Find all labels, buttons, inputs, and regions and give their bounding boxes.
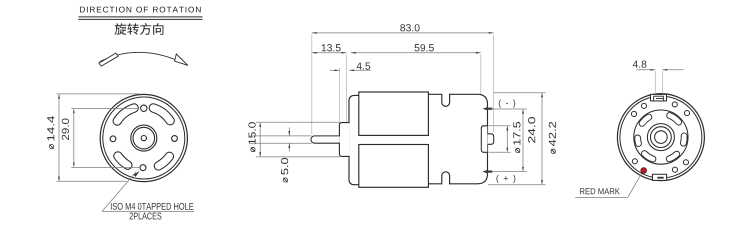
label ISO M4 0TAPPED HOLE (110, 203, 113, 210)
front vent slot upper-right (153, 108, 170, 121)
rear rivet hole 2 (672, 167, 677, 172)
rear rivet hole 6 (672, 102, 677, 107)
rear bearing hole (655, 131, 668, 144)
rear rivet hole 5 (641, 103, 646, 108)
rear rivet hole 7 (684, 111, 689, 116)
rear vent slot upper-right (670, 116, 679, 123)
M4 tapped hole bottom (140, 165, 146, 171)
dim 29.0 extension top (71, 108, 138, 110)
rear bottom tab (653, 174, 667, 180)
rear inner ring (620, 96, 702, 178)
dim d14.4 line (58, 95, 60, 180)
dim d17.5 extensions (489, 125, 511, 127)
dim 29.0 text (62, 119, 69, 140)
rear cap outline with notches (428, 94, 487, 184)
RED MARK label (580, 188, 585, 194)
rear boss circles (647, 124, 674, 151)
leader underline (102, 210, 194, 212)
dim 83.0 (312, 32, 494, 34)
bushing (339, 123, 349, 157)
dim 29.0 extension bottom (71, 166, 139, 168)
dim d42.2 extensions (494, 92, 546, 94)
ext line bump tip (493, 35, 495, 133)
rotation arrow head (175, 54, 188, 65)
front inner ring (103, 97, 185, 179)
rear rivet hole 4 (631, 111, 636, 116)
rear bearing bump (488, 134, 494, 145)
chinese title 旋转方向 (115, 23, 127, 35)
RED MARK underline (575, 196, 628, 198)
RED MARK leader (628, 173, 642, 197)
rear boss on cap (481, 126, 487, 153)
label (+) (496, 175, 498, 183)
terminal (-) top (482, 107, 487, 110)
side hole right (172, 136, 178, 142)
dim 59.5 (351, 52, 481, 54)
rear vent slot upper-left (642, 117, 649, 123)
dim 4.5 (330, 69, 339, 71)
label 2PLACES (130, 213, 133, 220)
rear vent slot left (634, 138, 642, 144)
title text (80, 7, 85, 13)
dim d5.0 extensions (251, 135, 312, 137)
M4 tapped hole top (141, 105, 147, 111)
title double rule (78, 16, 202, 18)
dim d42.2 line (541, 94, 543, 184)
rear top tab (651, 94, 667, 101)
ext line shaft tip (311, 35, 313, 135)
shaft (311, 136, 340, 143)
dim 29.0 line (73, 110, 75, 167)
front outer circle (100, 94, 187, 181)
dim 24.0 extensions (493, 108, 528, 110)
dim d14.4 text (47, 116, 54, 149)
front vent slot lower-right (158, 156, 169, 166)
rear cap face circle (634, 110, 688, 164)
rear rivet hole 1 (683, 160, 688, 165)
red mark dot (641, 168, 647, 174)
terminal (+) bottom (482, 170, 487, 173)
label (-) (499, 100, 501, 108)
ext line 13.5 right (345, 55, 347, 157)
dim d15.0 extensions (256, 121, 340, 123)
dim 13.5 (312, 52, 347, 54)
dim d14.4 extension bottom (57, 180, 128, 182)
front boss outer circle (131, 125, 157, 151)
dim 24.0 line (522, 110, 524, 170)
ext line boss face (480, 55, 482, 125)
rear outer circle (617, 94, 704, 181)
dim d5.0 arrows (288, 128, 290, 136)
can upper rectangle (359, 92, 429, 135)
shaft hole (141, 136, 146, 141)
rear vent slot right (680, 136, 688, 143)
motor end-bell outline (349, 95, 365, 184)
rear vent slot lower-left (644, 154, 653, 159)
rear vent slot lower-right (669, 154, 677, 159)
side hole left (110, 136, 116, 142)
leader to tapped hole (102, 172, 136, 212)
dim d14.4 extension top (57, 93, 140, 95)
dim d17.5 line (506, 127, 508, 151)
rotation arrow tail flag (99, 53, 118, 66)
rear rivet hole 3 (632, 159, 637, 164)
can lower rectangle (359, 145, 429, 188)
ext line bushing left (338, 68, 340, 122)
front vent slot lower-left (118, 156, 128, 165)
dim 4.8 arrows (637, 69, 656, 71)
dim 4.8 extensions (654, 71, 656, 94)
dim d15.0 line (259, 123, 261, 155)
rotation arrow arc (100, 52, 187, 64)
front boss inner circle (133, 127, 155, 149)
front vent slot upper-left (117, 108, 134, 121)
